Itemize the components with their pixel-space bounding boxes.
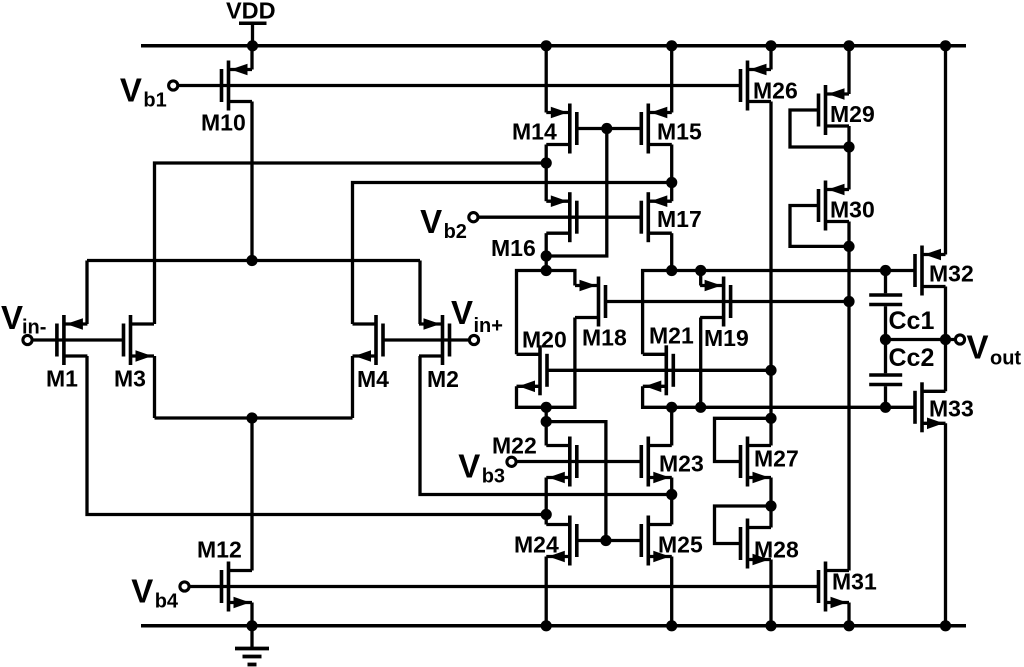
wire M15 drain to M17 source — [670, 145, 673, 202]
svg-text:M19: M19 — [704, 325, 749, 351]
svg-text:M21: M21 — [649, 323, 694, 349]
wire M10 source to VDD — [250, 46, 253, 70]
svg-text:b3: b3 — [482, 466, 505, 488]
wire M14 source to VDD — [545, 46, 548, 113]
junction M17 drain / node B — [666, 265, 677, 276]
wire M25 source to ground rail — [670, 557, 673, 626]
wire M2 drain to M23/M25 node — [420, 356, 672, 495]
svg-text:in+: in+ — [474, 315, 503, 337]
svg-text:M22: M22 — [492, 433, 537, 459]
wire Vb4 to M12/M31 gates — [189, 585, 818, 588]
wire Vin- to M1/M3 gates — [33, 338, 124, 341]
svg-text:V: V — [120, 71, 142, 108]
svg-text:M16: M16 — [491, 235, 536, 261]
junction NMOS tail / M12 drain — [246, 412, 257, 423]
transistor M3 — [114, 315, 154, 392]
junction M29 gate-drain — [843, 141, 854, 152]
transistor M24 — [514, 516, 577, 566]
capacitor Cc2 — [869, 340, 934, 408]
wire M16 drain down to node A — [545, 233, 548, 270]
wire node B (M21 drain to M32 gate) — [643, 271, 915, 355]
wire M20/M21 gates bias — [547, 369, 771, 372]
junction M22 drain tap — [541, 416, 552, 427]
junction ground rail x=849 — [843, 620, 854, 631]
wire M27 gate-drain loop — [715, 418, 772, 461]
svg-text:M28: M28 — [754, 537, 799, 563]
junction M23 drain / node B lower — [666, 402, 677, 413]
junction M3 drain node — [541, 157, 552, 168]
wire M26 source to VDD — [769, 46, 772, 70]
wire Vout node — [886, 338, 956, 341]
svg-text:M14: M14 — [512, 119, 557, 145]
svg-text:Cc2: Cc2 — [889, 344, 935, 372]
junction Cc2 / node B lower — [880, 402, 891, 413]
transistor M31 — [819, 562, 877, 612]
svg-text:out: out — [990, 348, 1021, 370]
svg-text:M12: M12 — [197, 537, 242, 563]
transistor M1 — [46, 315, 87, 392]
svg-text:M31: M31 — [832, 569, 877, 595]
junction M16 drain — [541, 250, 552, 261]
wire M14 drain to M16 source — [545, 145, 548, 202]
wire M32 source to VDD — [944, 46, 947, 255]
terminal Vb4 — [131, 572, 189, 612]
wire M33 source to ground rail — [944, 423, 947, 626]
junction M14/M15 gate node — [601, 123, 612, 134]
junction Cc1 / node B — [880, 265, 891, 276]
transistor M12 — [197, 537, 252, 612]
junction VDD rail x=252.5 — [247, 40, 258, 51]
svg-text:M1: M1 — [46, 366, 78, 392]
wire M26 drain to M27 string — [769, 102, 772, 446]
junction node A tap — [541, 265, 552, 276]
transistor M20 — [517, 327, 567, 396]
transistor M29 — [819, 85, 875, 135]
svg-text:M4: M4 — [357, 366, 389, 392]
terminal Vin+ — [451, 294, 503, 345]
junction M20/M21 gate bias node — [765, 365, 776, 376]
junction Cc1/Cc2 / Vout — [880, 334, 891, 345]
transistor M16 — [491, 192, 577, 261]
svg-text:M3: M3 — [114, 366, 146, 392]
svg-text:M33: M33 — [929, 396, 974, 422]
wire M29 source to VDD — [847, 46, 850, 94]
transistor M23 — [641, 437, 703, 487]
svg-text:M17: M17 — [657, 206, 702, 232]
terminal Vb1 — [120, 71, 178, 111]
svg-text:Cc1: Cc1 — [889, 307, 935, 335]
wire M3 drain to M14/M16 node — [155, 163, 547, 324]
svg-text:M32: M32 — [929, 261, 974, 287]
svg-text:in-: in- — [22, 317, 46, 339]
junction ground rail x=546.2 — [541, 620, 552, 631]
wire M19 drain to node B lower — [699, 318, 702, 408]
junction ground rail x=252 — [246, 620, 257, 631]
wire node A lower (M20 source / M18 drain) — [517, 318, 575, 408]
svg-text:M26: M26 — [753, 78, 798, 104]
terminal Vout — [955, 329, 1021, 370]
junction M27 gate-drain — [765, 413, 776, 424]
svg-text:V: V — [967, 329, 989, 366]
junction M28 gate-drain — [765, 500, 776, 511]
svg-text:M27: M27 — [754, 446, 799, 472]
wire M32 drain / M33 drain — [944, 287, 947, 392]
junction node A lower tap — [541, 402, 552, 413]
junction VDD rail x=771 — [765, 40, 776, 51]
junction VDD rail x=945.5 — [940, 40, 951, 51]
wire M4 source down — [351, 356, 354, 418]
transistor M4 — [353, 315, 390, 392]
svg-text:VDD: VDD — [226, 0, 276, 24]
wire M2 source up — [418, 261, 421, 325]
junction M30 gate-drain — [843, 241, 854, 252]
wire M4 drain to M15/M17 node — [353, 183, 672, 325]
svg-text:M20: M20 — [522, 327, 567, 353]
wire M10 drain to PMOS tail — [250, 102, 253, 261]
transistor M30 — [819, 181, 875, 231]
transistor M32 — [915, 246, 974, 296]
svg-text:M10: M10 — [201, 110, 246, 136]
svg-text:M2: M2 — [427, 366, 459, 392]
transistor M10 — [201, 61, 252, 136]
wire M19 source to node B — [699, 271, 702, 286]
junction M1 drain / M22 source — [541, 509, 552, 520]
wire M30 drain to M31 drain — [847, 222, 850, 571]
junction M32/M33 drains / Vout — [940, 334, 951, 345]
wire Vb1 to M10/M26 gates — [178, 84, 741, 87]
transistor M2 — [419, 315, 459, 392]
wire node B lower (M21 source to M33 gate) — [643, 386, 915, 407]
svg-text:b4: b4 — [155, 590, 179, 612]
ground rail (bottom) — [141, 624, 966, 628]
svg-text:V: V — [451, 294, 473, 331]
wire M24/M25 gates — [577, 539, 642, 542]
terminal Vb3 — [458, 448, 516, 488]
transistor M17 — [641, 192, 701, 242]
transistor M26 — [741, 61, 798, 111]
wire M3 source down — [153, 356, 156, 418]
junction M18/M19 gate bias node — [843, 296, 854, 307]
wire M28 gate-drain loop — [715, 506, 772, 544]
transistor M21 — [643, 323, 694, 396]
transistor M19 — [700, 277, 749, 352]
wire M1 source up — [85, 261, 88, 325]
wire M17 drain down to node B — [670, 233, 673, 270]
junction M2 drain / M23 source — [666, 489, 677, 500]
svg-text:M25: M25 — [658, 532, 703, 558]
wire node A lower to M22 drain / M24-M25 gates — [546, 407, 606, 540]
transistor M15 — [641, 104, 702, 154]
junction M4 drain node — [666, 177, 677, 188]
VDD supply symbol — [226, 0, 276, 46]
svg-text:M24: M24 — [514, 532, 559, 558]
wire M29 gate-drain loop — [790, 110, 849, 147]
wire M12 source to ground rail — [250, 603, 253, 626]
power rail VDD (top) — [141, 44, 966, 48]
svg-text:V: V — [420, 203, 442, 240]
transistor M18 — [575, 277, 627, 351]
junction M19 source / node B — [695, 265, 706, 276]
wire M30 gate-drain loop — [790, 206, 849, 247]
transistor M22 — [492, 433, 577, 487]
svg-text:V: V — [458, 448, 480, 485]
transistor M27 — [741, 437, 799, 487]
transistor M33 — [915, 382, 974, 432]
junction M19 drain / node B lower — [695, 402, 706, 413]
wire M1 drain to M22/M24 node — [87, 356, 546, 515]
wire M29 drain / M30 source — [847, 126, 850, 190]
transistor M25 — [641, 516, 703, 566]
svg-text:V: V — [131, 572, 153, 609]
junction ground rail x=945.5 — [940, 620, 951, 631]
wire M22 source / M24 drain — [545, 478, 548, 525]
wire M12 drain up — [250, 418, 253, 571]
wire M27 source / M28 drain — [769, 478, 772, 528]
terminal Vin- — [1, 299, 46, 345]
wire M18/M19 gates bias — [606, 300, 850, 303]
junction M24/M25 gate node — [600, 535, 611, 546]
transistor M14 — [512, 104, 577, 154]
wire Vb2 to M16/M17 gates — [478, 216, 641, 219]
wire Vin+ to M2/M4 gates — [383, 338, 469, 341]
svg-text:M29: M29 — [830, 101, 875, 127]
junction M10 drain / tail — [246, 255, 257, 266]
transistor M28 — [741, 519, 799, 569]
svg-text:M23: M23 — [659, 451, 704, 477]
wire NMOS pair tail node — [155, 416, 353, 419]
wire M14/M15 gates — [577, 127, 642, 130]
wire node A (M20 drain / M18 source) — [517, 271, 575, 355]
wire Vb3 to M22/M23 gates — [517, 460, 641, 463]
wire M14/M15 gates to M16 drain — [546, 129, 607, 257]
junction VDD rail x=546.2 — [541, 40, 552, 51]
junction VDD rail x=671.7 — [666, 40, 677, 51]
svg-text:M30: M30 — [830, 197, 875, 223]
terminal Vb2 — [420, 203, 478, 243]
capacitor Cc1 — [869, 271, 934, 340]
wire M23 source / M25 drain — [670, 478, 673, 525]
wire M31 source to ground rail — [847, 603, 850, 626]
wire M15 source to VDD — [670, 46, 673, 113]
junction VDD rail x=849 — [843, 40, 854, 51]
wire M24 source to ground rail — [545, 557, 548, 626]
junction ground rail x=771 — [765, 620, 776, 631]
svg-text:b1: b1 — [143, 89, 166, 111]
svg-text:M15: M15 — [657, 119, 702, 145]
wire M28 source to ground rail — [769, 560, 772, 626]
svg-text:M18: M18 — [582, 325, 627, 351]
wire PMOS pair tail node — [87, 259, 420, 262]
ground — [235, 626, 269, 665]
svg-text:V: V — [1, 299, 23, 336]
svg-text:b2: b2 — [444, 221, 467, 243]
wire M23 drain up — [670, 407, 673, 445]
junction ground rail x=671.7 — [666, 620, 677, 631]
